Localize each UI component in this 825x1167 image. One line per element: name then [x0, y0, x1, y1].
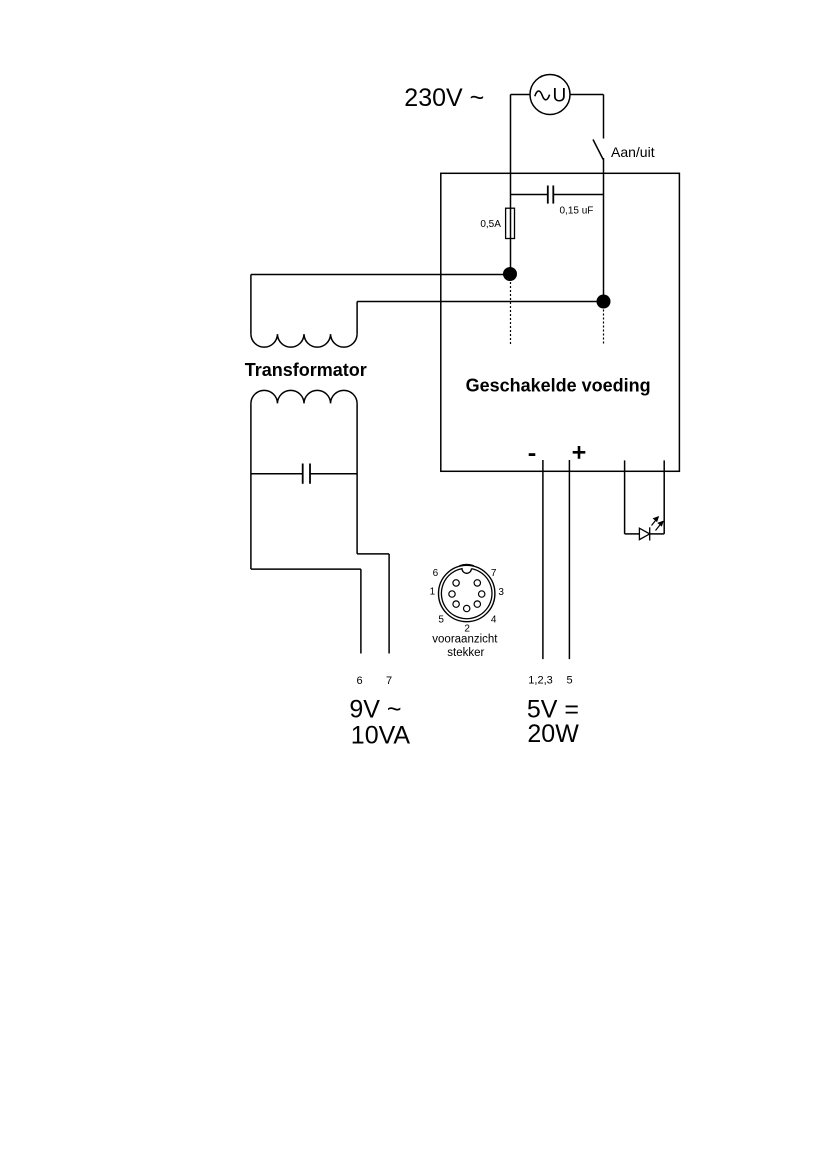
svg-text:0,15 uF: 0,15 uF — [560, 206, 594, 217]
svg-text:6: 6 — [356, 675, 362, 687]
svg-text:vooraanzicht: vooraanzicht — [432, 633, 498, 645]
svg-text:230V ~: 230V ~ — [404, 84, 484, 112]
svg-text:U: U — [553, 85, 567, 106]
svg-text:Geschakelde voeding: Geschakelde voeding — [466, 376, 651, 396]
svg-text:10VA: 10VA — [351, 722, 411, 750]
svg-text:5: 5 — [567, 675, 573, 687]
svg-text:0,5A: 0,5A — [480, 219, 501, 230]
svg-text:5: 5 — [438, 614, 444, 625]
svg-text:4: 4 — [491, 614, 497, 625]
svg-text:Aan/uit: Aan/uit — [611, 144, 655, 160]
svg-text:9V ~: 9V ~ — [349, 696, 401, 724]
svg-text:6: 6 — [433, 568, 439, 579]
svg-text:7: 7 — [491, 568, 497, 579]
svg-text:stekker: stekker — [447, 647, 484, 659]
svg-text:3: 3 — [498, 587, 504, 598]
svg-text:Transformator: Transformator — [245, 360, 367, 380]
svg-text:7: 7 — [386, 675, 392, 687]
svg-text:1: 1 — [430, 586, 436, 597]
svg-text:1,2,3: 1,2,3 — [528, 675, 552, 687]
svg-text:20W: 20W — [527, 720, 579, 748]
